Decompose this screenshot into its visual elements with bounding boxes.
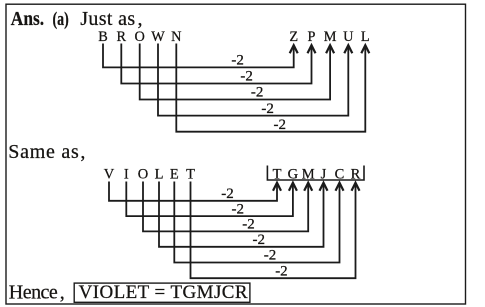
svg-text:-2: -2 xyxy=(253,232,266,248)
svg-text:-2: -2 xyxy=(242,217,255,233)
svg-text:-2: -2 xyxy=(274,117,287,133)
svg-text:,: , xyxy=(138,8,143,30)
svg-text:M: M xyxy=(324,29,337,45)
svg-text:L: L xyxy=(361,29,370,45)
svg-text:-2: -2 xyxy=(275,263,288,279)
svg-text:Just as: Just as xyxy=(80,8,135,30)
svg-text:,: , xyxy=(80,141,85,163)
svg-text:U: U xyxy=(343,29,354,45)
svg-text:,: , xyxy=(60,281,65,303)
svg-text:R: R xyxy=(117,29,127,45)
svg-text:-2: -2 xyxy=(221,186,234,202)
svg-text:W: W xyxy=(151,29,165,45)
svg-text:-2: -2 xyxy=(240,69,253,85)
svg-text:Z: Z xyxy=(289,29,298,45)
svg-text:Same as: Same as xyxy=(8,141,79,163)
svg-text:-2: -2 xyxy=(232,201,245,217)
svg-text:L: L xyxy=(155,167,164,183)
svg-text:-2: -2 xyxy=(261,101,274,117)
svg-text:-2: -2 xyxy=(264,248,277,264)
svg-text:V: V xyxy=(104,167,115,183)
svg-text:VIOLET = TGMJCR: VIOLET = TGMJCR xyxy=(79,282,248,303)
svg-text:-2: -2 xyxy=(251,85,264,101)
svg-text:Ans.: Ans. xyxy=(11,8,44,30)
svg-text:E: E xyxy=(170,167,179,183)
svg-text:Hence: Hence xyxy=(9,281,58,303)
svg-text:I: I xyxy=(124,167,129,183)
svg-text:P: P xyxy=(308,29,316,45)
svg-text:(a): (a) xyxy=(53,9,69,30)
svg-text:-2: -2 xyxy=(231,53,244,69)
svg-text:N: N xyxy=(171,29,181,45)
svg-text:T: T xyxy=(186,167,195,183)
svg-text:B: B xyxy=(98,29,108,45)
svg-text:O: O xyxy=(138,167,148,183)
svg-text:O: O xyxy=(135,29,145,45)
